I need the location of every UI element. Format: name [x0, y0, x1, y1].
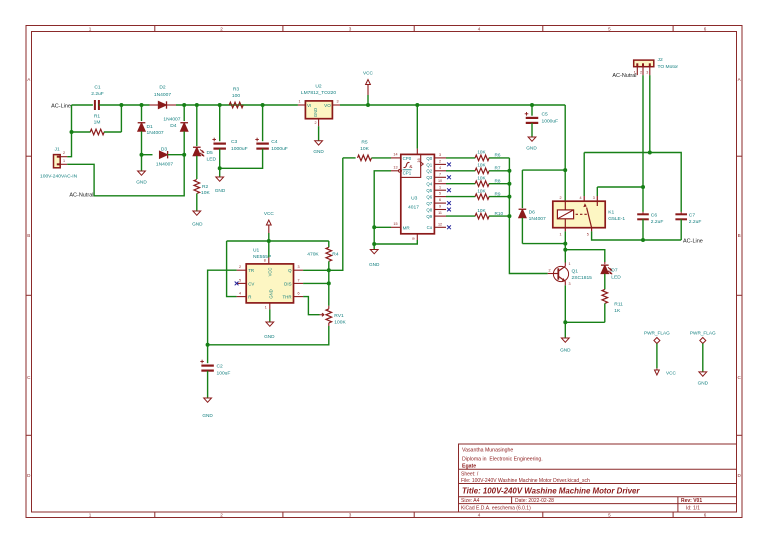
svg-text:100: 100	[232, 93, 240, 99]
wire top to C7	[650, 153, 681, 212]
junction C4 top	[261, 103, 265, 107]
svg-text:GND: GND	[313, 149, 324, 154]
svg-text:File: 100V-240V Washine Machin: File: 100V-240V Washine Machine Motor Dr…	[461, 478, 590, 484]
svg-text:1: 1	[89, 26, 92, 31]
ground below Q1	[561, 338, 569, 342]
U3 left pins	[391, 157, 401, 159]
svg-text:10K: 10K	[477, 208, 486, 213]
wire NO horizontal	[597, 186, 643, 188]
wire Q1 base	[548, 273, 554, 275]
svg-text:VI: VI	[307, 103, 311, 108]
regulator U2 LM7812_TO220	[305, 101, 332, 119]
no-connect on Q5	[447, 188, 451, 192]
svg-text:CP1: CP1	[403, 170, 412, 175]
resistor R6 10K	[475, 155, 489, 161]
svg-text:VCC: VCC	[363, 71, 374, 76]
wire resistor bus to Q1 base	[509, 158, 547, 274]
svg-text:R4: R4	[332, 251, 339, 257]
svg-text:R7: R7	[495, 166, 501, 171]
svg-text:GND: GND	[269, 289, 274, 298]
resistor R4 470K	[328, 241, 330, 247]
svg-text:4: 4	[478, 26, 481, 31]
svg-text:1: 1	[89, 512, 92, 517]
diode D3 1N4007	[142, 154, 153, 156]
svg-text:R6: R6	[495, 153, 501, 158]
svg-text:Size: A4: Size: A4	[461, 498, 480, 504]
svg-text:4: 4	[478, 512, 481, 517]
svg-text:3: 3	[297, 265, 299, 269]
svg-text:2: 2	[640, 71, 642, 75]
diode D4 1N4007	[183, 105, 185, 121]
ground below U1	[269, 309, 271, 322]
capacitor C3 1000uF	[219, 105, 221, 141]
svg-text:Q2: Q2	[426, 169, 432, 174]
junction resistor bus	[507, 169, 511, 173]
svg-text:C3: C3	[231, 139, 238, 145]
svg-text:Id: 1/1: Id: 1/1	[686, 505, 700, 511]
ground below C3	[219, 168, 221, 177]
diode D2 1N4007	[158, 101, 166, 108]
svg-text:2.2uF: 2.2uF	[689, 219, 702, 225]
wire collector node to LED branch	[565, 250, 605, 262]
svg-text:VCC: VCC	[264, 211, 275, 216]
svg-text:2SC1815: 2SC1815	[572, 275, 593, 281]
svg-text:10K: 10K	[477, 176, 486, 181]
wire U1 VCC pin to rail	[268, 241, 270, 257]
wire relay NC contact up	[583, 153, 585, 197]
svg-text:U2: U2	[315, 84, 322, 90]
svg-text:12: 12	[438, 222, 442, 226]
svg-text:1000uF: 1000uF	[542, 118, 559, 124]
svg-text:10K: 10K	[477, 188, 486, 193]
svg-text:U1: U1	[253, 248, 260, 254]
svg-text:GND: GND	[313, 108, 318, 117]
no-connect on Q3	[447, 175, 451, 179]
svg-text:B: B	[738, 233, 741, 238]
svg-text:C2: C2	[217, 363, 224, 369]
wire D2 to U2	[176, 104, 298, 106]
svg-text:15: 15	[393, 222, 397, 226]
svg-text:GND: GND	[526, 146, 537, 151]
wire bottom bus to RV1	[208, 326, 329, 345]
resistor R3 100	[229, 102, 243, 108]
junction D1/D3/GND node	[140, 153, 144, 157]
svg-text:J1: J1	[55, 147, 60, 153]
LED D7	[604, 262, 606, 264]
svg-text:1000uF: 1000uF	[231, 146, 248, 152]
potentiometer RV1 100K	[328, 306, 330, 309]
junction resistor bus	[507, 182, 511, 186]
svg-text:THR: THR	[282, 295, 291, 300]
capacitor C1	[94, 100, 96, 110]
svg-text:10K: 10K	[360, 146, 369, 152]
svg-text:Diploma in Electronic Enginee: Diploma in Electronic Engineering.	[462, 457, 543, 463]
svg-text:LED: LED	[207, 157, 217, 163]
wire J2 pin2 down to C6	[642, 75, 644, 212]
svg-text:C4: C4	[271, 139, 278, 145]
power symbol VCC above U1	[268, 233, 270, 241]
svg-text:100uF: 100uF	[217, 370, 231, 376]
junction D3/D4/AC-Nutral	[182, 153, 186, 157]
resistor R11 1K	[602, 289, 608, 303]
svg-text:K1: K1	[608, 209, 614, 215]
svg-text:3: 3	[336, 100, 338, 104]
svg-text:AC-Line: AC-Line	[51, 103, 71, 109]
svg-text:16: 16	[416, 158, 421, 162]
svg-text:3: 3	[349, 512, 352, 517]
svg-text:5: 5	[587, 232, 589, 236]
svg-text:C6: C6	[651, 212, 658, 218]
svg-text:8: 8	[411, 237, 416, 239]
resistor R1 1M	[72, 131, 91, 133]
resistor R5 10K	[343, 157, 356, 159]
junction C6 bottom	[641, 238, 645, 242]
svg-text:Q8: Q8	[426, 207, 432, 212]
svg-text:1K: 1K	[614, 308, 621, 314]
svg-text:VCC: VCC	[268, 268, 273, 277]
svg-text:6: 6	[439, 198, 441, 202]
junction D5 top	[195, 103, 199, 107]
junction C1/R1 right	[119, 103, 123, 107]
svg-text:4: 4	[239, 292, 241, 296]
capacitor C2 100uF	[207, 345, 209, 363]
wire AC-Line down to J1 pin 2	[67, 105, 71, 157]
svg-text:Q6: Q6	[426, 195, 432, 200]
resistor R8 10K	[475, 181, 489, 187]
svg-text:2.2uF: 2.2uF	[91, 91, 104, 97]
svg-text:4017: 4017	[408, 205, 419, 211]
svg-text:1: 1	[265, 305, 267, 309]
svg-text:7: 7	[439, 172, 441, 176]
wire Q/DIS vertical down to RV1 top	[328, 270, 330, 306]
svg-text:1N4007: 1N4007	[156, 162, 173, 168]
no-connect on Q8	[447, 208, 451, 212]
svg-text:GND: GND	[136, 179, 147, 184]
svg-text:C1: C1	[94, 85, 101, 91]
wire Q1 emitter to ground	[564, 285, 566, 338]
transistor Q1 2SC1815	[553, 266, 568, 281]
op-amp U1 NE555P timer body	[246, 264, 293, 303]
svg-text:2: 2	[314, 121, 316, 125]
ground below R2	[193, 211, 201, 215]
no-connect on Q1	[447, 163, 451, 167]
junction D1 top	[140, 103, 144, 107]
svg-text:PWR_FLAG: PWR_FLAG	[644, 331, 670, 336]
svg-text:5: 5	[608, 26, 611, 31]
wire relay coil- down to Q1 collector	[564, 231, 566, 262]
no-connect on Co	[447, 225, 451, 229]
wire VCC down to U3 VDD	[416, 105, 418, 149]
svg-text:3: 3	[569, 282, 571, 286]
svg-text:14: 14	[393, 153, 397, 157]
svg-text:470K: 470K	[307, 251, 319, 257]
junction resistor bus	[507, 214, 511, 218]
svg-text:TR: TR	[248, 268, 254, 273]
junction D4 top	[182, 103, 186, 107]
svg-text:1N4007: 1N4007	[154, 92, 171, 98]
ground below U3	[370, 250, 378, 254]
svg-text:4: 4	[439, 166, 441, 170]
svg-text:8: 8	[264, 258, 266, 262]
svg-text:DIS: DIS	[284, 281, 291, 286]
svg-text:5: 5	[608, 512, 611, 517]
svg-text:10K: 10K	[477, 150, 486, 155]
svg-text:R2: R2	[202, 184, 209, 190]
wire Q6 to R9	[446, 196, 475, 198]
svg-text:11: 11	[438, 211, 442, 215]
no-connect on CV pin	[235, 282, 239, 286]
svg-text:2: 2	[239, 265, 241, 269]
svg-text:100K: 100K	[334, 320, 346, 326]
svg-text:AC-Nutral: AC-Nutral	[69, 193, 93, 199]
svg-text:PWR_FLAG: PWR_FLAG	[690, 331, 716, 336]
no-connect on Q7	[447, 201, 451, 205]
wire C1 right to rail	[99, 104, 150, 106]
svg-text:Q7: Q7	[426, 201, 432, 206]
svg-text:AC-Nutral: AC-Nutral	[612, 73, 636, 79]
svg-text:C7: C7	[689, 212, 696, 218]
svg-text:Q: Q	[288, 268, 292, 273]
wire CP1 and MR to ground	[374, 171, 391, 250]
svg-text:GND: GND	[698, 380, 709, 385]
svg-text:10K: 10K	[201, 190, 210, 196]
wire VCC down to relay coil	[564, 105, 566, 201]
svg-text:2: 2	[559, 196, 561, 200]
svg-text:GND: GND	[192, 221, 203, 226]
svg-text:10K: 10K	[477, 163, 486, 168]
resistor R10 10K	[475, 213, 489, 219]
power symbol VCC at rail	[367, 95, 369, 105]
svg-text:Vasantha Munasinghe: Vasantha Munasinghe	[462, 448, 513, 454]
svg-text:D7: D7	[611, 268, 618, 274]
svg-text:R11: R11	[614, 301, 623, 307]
svg-text:Rev: V01: Rev: V01	[681, 498, 702, 504]
wire VSS to ground vertical	[374, 240, 417, 244]
svg-text:5: 5	[439, 192, 441, 196]
wire J2 pin3 jog to C7	[584, 75, 650, 152]
wire VCC rail U2 to relay	[340, 104, 565, 106]
wire Q0 to R6	[446, 157, 475, 159]
wire J1 pin1 to AC-Nutral bus	[67, 155, 184, 196]
svg-text:2: 2	[548, 268, 550, 272]
connector J1	[54, 155, 61, 168]
svg-text:D1: D1	[147, 124, 154, 130]
svg-text:MR: MR	[403, 225, 411, 230]
wire R11 bottom to emitter	[565, 321, 605, 323]
svg-text:Q9: Q9	[426, 214, 432, 219]
svg-text:3: 3	[593, 196, 595, 200]
svg-text:Co: Co	[427, 225, 433, 230]
svg-text:D6: D6	[529, 209, 536, 215]
svg-text:Q0: Q0	[426, 156, 432, 161]
capacitor C4 1000uF	[262, 105, 264, 141]
svg-text:R9: R9	[495, 191, 501, 196]
svg-text:D3: D3	[161, 147, 168, 153]
svg-text:2: 2	[220, 26, 223, 31]
svg-text:10: 10	[438, 179, 442, 183]
wire Q2 to R7	[446, 170, 475, 172]
svg-text:2: 2	[63, 151, 65, 155]
svg-text:D4: D4	[170, 123, 177, 129]
svg-text:3: 3	[646, 71, 648, 75]
wire Q4 to R8	[446, 183, 475, 185]
svg-text:LED: LED	[611, 274, 621, 280]
svg-text:1N4007: 1N4007	[529, 216, 546, 222]
junction bottom bus left	[206, 343, 210, 347]
resistor R9 10K	[475, 194, 489, 200]
svg-text:6: 6	[704, 26, 707, 31]
svg-text:R8: R8	[495, 178, 501, 183]
svg-text:13: 13	[393, 166, 397, 170]
svg-text:100V-240VAC-IN: 100V-240VAC-IN	[40, 174, 78, 180]
capacitor C6 2.2uF	[637, 213, 649, 215]
junction R1 left	[70, 130, 74, 134]
svg-text:1M: 1M	[94, 120, 101, 126]
svg-text:R5: R5	[361, 140, 368, 146]
svg-text:B: B	[27, 233, 30, 238]
ground below C2	[204, 398, 212, 402]
svg-text:1000uF: 1000uF	[271, 146, 288, 152]
svg-text:Q3: Q3	[426, 175, 432, 180]
svg-text:CP0: CP0	[403, 156, 412, 161]
U1 pin stubs and numbers	[237, 269, 247, 271]
ground below D1	[141, 155, 143, 171]
svg-text:Sheet: /: Sheet: /	[461, 472, 479, 478]
svg-text:GND: GND	[202, 413, 213, 418]
title block text	[461, 448, 702, 512]
svg-text:7: 7	[297, 278, 299, 282]
capacitor C5 1000uF	[531, 105, 533, 116]
svg-text:D2: D2	[159, 85, 166, 91]
svg-text:3: 3	[349, 26, 352, 31]
resistor R2 10K	[194, 180, 200, 194]
svg-text:Egate: Egate	[462, 464, 476, 470]
svg-text:GND: GND	[369, 262, 380, 267]
svg-text:R10: R10	[495, 211, 504, 216]
svg-text:1: 1	[569, 262, 571, 266]
svg-text:VCC: VCC	[666, 371, 677, 376]
capacitor C7 2.2uF	[675, 213, 687, 215]
connector J2 TO Motor	[634, 60, 654, 67]
junction C3 bottom	[218, 166, 222, 170]
svg-text:R: R	[248, 295, 251, 300]
svg-text:1N4007: 1N4007	[163, 117, 180, 123]
svg-text:2.2uF: 2.2uF	[651, 219, 664, 225]
svg-text:Q1: Q1	[572, 268, 579, 274]
svg-text:Q1: Q1	[426, 162, 432, 167]
wire relay common to AC-Line	[592, 231, 682, 240]
svg-text:VO: VO	[324, 103, 331, 108]
svg-text:Date: 2022-02-28: Date: 2022-02-28	[515, 498, 554, 504]
svg-text:2: 2	[439, 160, 441, 164]
junction resistor bus	[507, 195, 511, 199]
U3 VSS pin bottom	[416, 234, 418, 240]
wire relay NO contact up	[596, 187, 598, 196]
wire THR to RV1 wiper	[303, 297, 319, 315]
wire VCC rail down to R pin	[227, 241, 237, 297]
svg-text:2: 2	[220, 512, 223, 517]
wire AC-Line to C1	[72, 104, 93, 106]
svg-text:KiCad E.D.A. eeschema (6.0.1): KiCad E.D.A. eeschema (6.0.1)	[461, 505, 531, 511]
LED D5	[196, 105, 198, 146]
svg-text:1: 1	[298, 100, 300, 104]
svg-text:4: 4	[579, 196, 581, 200]
svg-text:RV1: RV1	[334, 313, 344, 319]
junction R4 bottom on Q wire	[327, 268, 331, 272]
svg-text:C5: C5	[542, 111, 549, 117]
svg-text:9: 9	[439, 205, 441, 209]
svg-text:Q4: Q4	[426, 182, 432, 187]
wire Q output	[303, 158, 343, 270]
svg-text:CV: CV	[248, 281, 254, 286]
svg-text:3: 3	[439, 153, 441, 157]
title block	[459, 444, 737, 512]
svg-text:1: 1	[63, 159, 65, 163]
svg-text:G5LE-1: G5LE-1	[608, 216, 625, 222]
relay K1 G5LE-1	[553, 201, 605, 228]
svg-text:R1: R1	[94, 114, 101, 120]
counter U3 4017 body	[401, 154, 435, 233]
junction DIS on vertical	[327, 281, 331, 285]
svg-text:R3: R3	[233, 87, 240, 93]
resistor R7 10K	[475, 168, 489, 174]
U3 clock edge glyph	[404, 162, 410, 167]
wire D6 bottom to relay coil-	[522, 243, 565, 245]
wire DIS to RV1 vertical	[303, 282, 329, 284]
svg-text:1: 1	[439, 185, 441, 189]
svg-text:GND: GND	[560, 347, 571, 352]
svg-text:J2: J2	[658, 57, 663, 63]
svg-text:LM7812_TO220: LM7812_TO220	[301, 90, 337, 96]
svg-text:GND: GND	[264, 334, 275, 339]
svg-text:D5: D5	[207, 150, 214, 156]
wire TR pin to bottom bus	[208, 270, 237, 345]
svg-text:AC-Line: AC-Line	[683, 238, 703, 244]
svg-text:Q5: Q5	[426, 188, 432, 193]
wire 555 VCC rail	[227, 240, 329, 242]
junction C3 top	[218, 103, 222, 107]
svg-text:1: 1	[559, 232, 561, 236]
svg-text:U3: U3	[411, 196, 418, 202]
svg-text:GND: GND	[215, 188, 226, 193]
wire Q9 to R10	[446, 215, 475, 217]
diode D6 1N4007 flyback	[522, 169, 565, 171]
svg-text:6: 6	[297, 292, 299, 296]
svg-text:Title: 100V-240V Washine Machi: Title: 100V-240V Washine Machine Motor D…	[462, 487, 640, 496]
diode D1 1N4007	[141, 105, 143, 121]
svg-text:1N4007: 1N4007	[147, 130, 164, 136]
svg-text:TO Motor: TO Motor	[658, 64, 679, 70]
svg-text:6: 6	[704, 512, 707, 517]
svg-text:5: 5	[239, 278, 241, 282]
junction D6 top on coil wire	[563, 168, 567, 172]
ground below C5	[528, 137, 536, 141]
ground below U2	[318, 126, 320, 141]
